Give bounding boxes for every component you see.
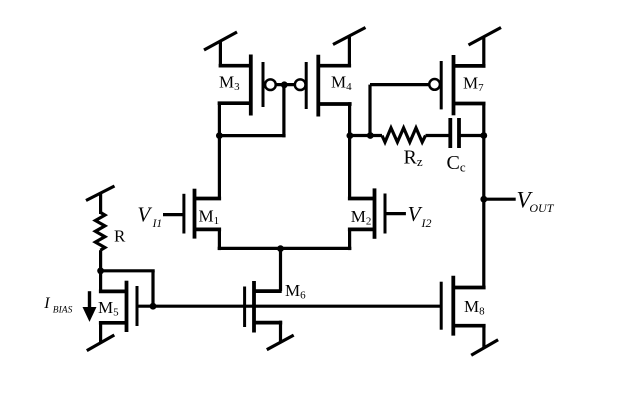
svg-text:I: I (43, 295, 50, 312)
svg-text:BIAS: BIAS (53, 305, 73, 315)
svg-text:V: V (137, 202, 152, 226)
svg-text:R: R (114, 226, 126, 245)
svg-text:I1: I1 (152, 218, 163, 230)
svg-text:I2: I2 (421, 216, 432, 230)
svg-text:OUT: OUT (529, 201, 554, 215)
svg-text:V: V (408, 202, 423, 226)
